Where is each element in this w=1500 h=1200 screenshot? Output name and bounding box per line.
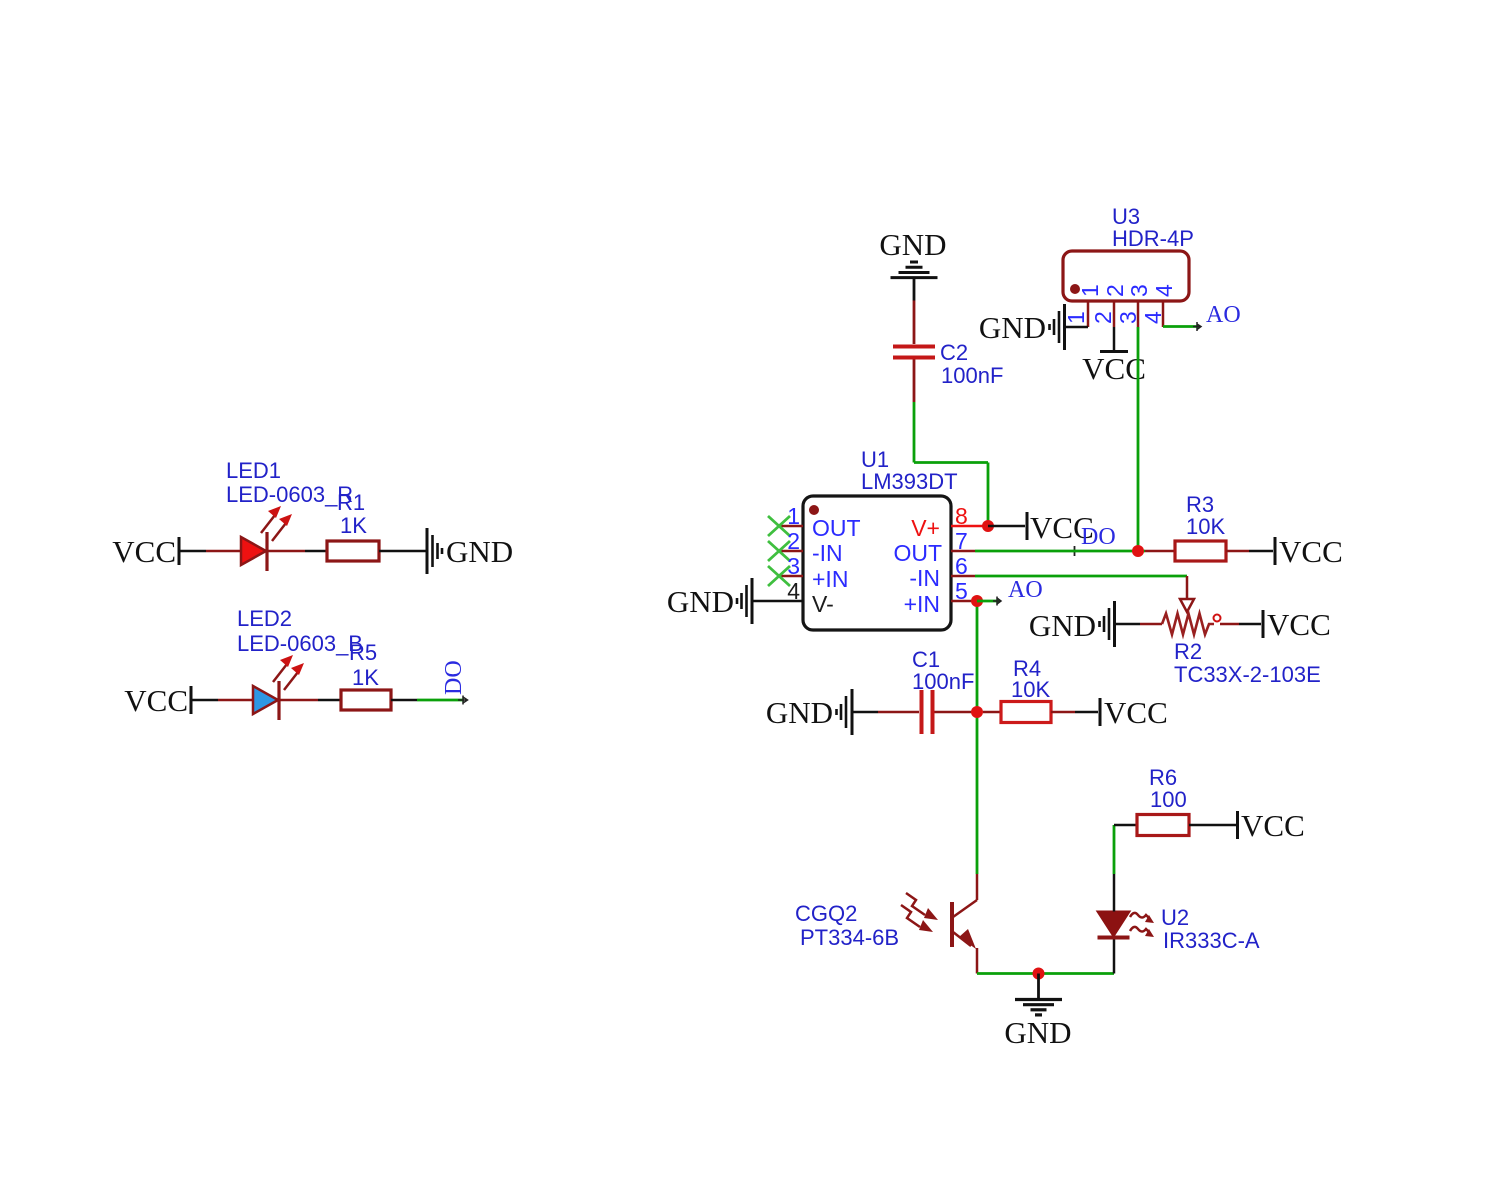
svg-text:-IN: -IN (812, 540, 843, 566)
svg-text:GND: GND (446, 534, 513, 569)
LED U2 (1098, 912, 1130, 938)
svg-text:LED-0603_R: LED-0603_R (226, 482, 353, 507)
wire pin5 to AO port (977, 600, 999, 603)
svg-text:U2: U2 (1161, 905, 1189, 930)
svg-text:GND: GND (1004, 1015, 1071, 1050)
svg-text:HDR-4P: HDR-4P (1112, 226, 1194, 251)
svg-text:VCC: VCC (1241, 808, 1305, 843)
U1 pin1 orientation dot (809, 505, 819, 515)
LED LED2 (253, 655, 304, 720)
resistor R5 (341, 690, 391, 710)
wire GND to U1 pin4 (752, 600, 803, 603)
svg-text:2: 2 (1102, 284, 1128, 297)
svg-text:IR333C-A: IR333C-A (1163, 928, 1260, 953)
U3 pin1 dot (1070, 284, 1080, 294)
no-connect X pin1 (768, 516, 790, 536)
svg-text:8: 8 (955, 503, 968, 529)
svg-text:3: 3 (1115, 311, 1141, 324)
connector U3 body (1063, 251, 1189, 301)
power flag VCC (R3) (1275, 534, 1343, 569)
svg-text:7: 7 (955, 528, 968, 554)
capacitor C2 (893, 347, 935, 358)
svg-text:+IN: +IN (904, 591, 940, 617)
ground GND (R2) (1029, 601, 1115, 647)
ground GND (C1) (766, 689, 852, 735)
power flag VCC (R2) (1263, 607, 1331, 642)
svg-text:1: 1 (1063, 311, 1089, 324)
node junction bottom GND (1033, 968, 1045, 980)
svg-text:2: 2 (787, 528, 800, 554)
node junction pin5 (971, 595, 983, 607)
ground GND (above C2) (879, 227, 946, 278)
svg-text:OUT: OUT (893, 540, 942, 566)
svg-text:VCC: VCC (124, 683, 188, 718)
wire GND to R2 (1115, 623, 1163, 626)
svg-text:V-: V- (812, 591, 834, 617)
U2 emitted light squiggles (1130, 913, 1154, 937)
wire U1 pin7 to R3 (975, 550, 1145, 553)
svg-text:TC33X-2-103E: TC33X-2-103E (1174, 662, 1321, 687)
svg-text:DO: DO (441, 660, 467, 695)
wire U2 anode up to R6 (1114, 825, 1137, 912)
svg-text:C2: C2 (940, 340, 968, 365)
wire U1 pin6 to R2 wiper (975, 576, 1187, 600)
svg-text:4: 4 (1140, 311, 1166, 324)
wire R6 to VCC (1189, 824, 1236, 827)
svg-text:VCC: VCC (1267, 607, 1331, 642)
power flag VCC (U1 pin8) (1027, 510, 1094, 545)
U1 left pin names (812, 515, 861, 617)
U3 pin 1 stub (1087, 301, 1090, 327)
svg-text:LED1: LED1 (226, 458, 281, 483)
LED LED1 (241, 506, 292, 571)
svg-text:1: 1 (1077, 284, 1103, 297)
resistor R6 (1137, 815, 1189, 836)
wire C1 to node (935, 711, 973, 714)
net port arrow DO (458, 696, 468, 705)
power flag VCC (R6) (1238, 808, 1305, 843)
svg-text:DO: DO (1081, 524, 1116, 550)
U1 pin 5 stub (951, 600, 972, 603)
svg-text:10K: 10K (1011, 677, 1050, 702)
transistor CGQ2 (952, 874, 977, 974)
op-amp U1 body (803, 496, 951, 630)
U3 inside pin numbers (rotated) (1077, 284, 1177, 297)
CGQ2 incoming light arrows (901, 893, 938, 932)
svg-text:6: 6 (955, 553, 968, 579)
wire node to R4 (983, 711, 1001, 714)
resistor R4 (1001, 702, 1051, 723)
svg-text:100nF: 100nF (912, 669, 974, 694)
U1 pin 6 stub (951, 575, 975, 578)
svg-text:LED-0603_B: LED-0603_B (237, 631, 363, 656)
resistor R3 (1175, 541, 1226, 561)
wire pin8 to VCC (988, 525, 1025, 528)
svg-text:LED2: LED2 (237, 606, 292, 631)
wire R5 to DO port (391, 699, 464, 702)
ground GND (U1 pin4) (667, 578, 752, 624)
power flag VCC (LED1) (112, 534, 179, 569)
svg-text:5: 5 (955, 578, 968, 604)
U1 pin 8 stub (951, 525, 988, 528)
svg-text:3: 3 (1126, 284, 1152, 297)
node junction C1/R4 (971, 706, 983, 718)
wire LED1 to R1 (267, 550, 327, 553)
svg-text:-IN: -IN (909, 565, 940, 591)
wire U2 cathode to bottom net (1113, 937, 1116, 974)
svg-text:LM393DT: LM393DT (861, 469, 958, 494)
power flag VCC (U3 pin2, down) (1082, 351, 1146, 386)
U3 pin 4 stub (1162, 301, 1165, 327)
ground GND (U3 pin1) (979, 304, 1065, 350)
wire R3 to VCC (1226, 550, 1273, 553)
svg-text:GND: GND (979, 310, 1046, 345)
no-connect X pin2 (768, 541, 790, 561)
wire VCC to LED2 (191, 699, 253, 702)
node junction DO (1132, 545, 1144, 557)
wire node down to CGQ2 collector (976, 712, 979, 874)
svg-text:VCC: VCC (1082, 351, 1146, 386)
wire U3 pin4 to AO port (1163, 325, 1199, 328)
svg-text:V+: V+ (911, 515, 940, 541)
svg-text:4: 4 (1151, 284, 1177, 297)
U3 pin 3 stub (1137, 301, 1140, 327)
no-connect X pin3 (768, 566, 790, 586)
svg-text:GND: GND (1029, 608, 1096, 643)
node junction pin8 (982, 520, 994, 532)
svg-text:R1: R1 (337, 490, 365, 515)
wire R2 to VCC (1220, 623, 1261, 626)
svg-text:GND: GND (766, 695, 833, 730)
power flag VCC (R4) (1100, 695, 1168, 730)
wire R1 to GND (379, 550, 427, 553)
net port marker AO (993, 597, 1001, 606)
svg-text:+IN: +IN (812, 566, 848, 592)
svg-text:AO: AO (1008, 577, 1043, 603)
svg-text:CGQ2: CGQ2 (795, 901, 857, 926)
resistor R1 (327, 541, 379, 561)
ground GND (LED1) (427, 528, 513, 574)
svg-text:AO: AO (1206, 302, 1241, 328)
wire C2 to U1 pin8 (914, 360, 988, 527)
svg-text:VCC: VCC (1279, 534, 1343, 569)
U1 pin 1 stub (779, 525, 803, 528)
U1 pin 2 stub (779, 550, 803, 553)
wire U3 pin3 down to DO net (1137, 327, 1140, 551)
wire U3 pin2 to VCC (1113, 327, 1116, 351)
net port marker DO (1070, 546, 1079, 556)
svg-text:GND: GND (667, 584, 734, 619)
svg-text:VCC: VCC (112, 534, 176, 569)
svg-text:R5: R5 (349, 640, 377, 665)
svg-text:3: 3 (787, 553, 800, 579)
svg-text:1K: 1K (352, 665, 379, 690)
R2 wiper arrow (1180, 599, 1194, 612)
wire LED2 to R5 (279, 699, 341, 702)
power flag VCC (LED2) (124, 683, 191, 718)
capacitor C1 (922, 690, 933, 734)
wire VCC to LED1 (179, 550, 241, 553)
net port arrow AO (U3) (1193, 322, 1201, 331)
wire emitter to U2 bottom (977, 972, 1114, 975)
svg-text:PT334-6B: PT334-6B (800, 925, 899, 950)
svg-text:1: 1 (787, 503, 800, 529)
wire GND to C1 (852, 711, 919, 714)
svg-text:R2: R2 (1174, 639, 1202, 664)
U1 pin 3 stub (779, 575, 803, 578)
U3 pin 2 stub (1113, 301, 1116, 327)
wire pin5 node down to C1 node (976, 601, 979, 712)
U1 pin 7 stub (951, 550, 975, 553)
svg-text:100nF: 100nF (941, 363, 1003, 388)
svg-text:10K: 10K (1186, 514, 1225, 539)
svg-text:OUT: OUT (812, 515, 861, 541)
svg-text:100: 100 (1150, 787, 1187, 812)
svg-text:2: 2 (1090, 311, 1116, 324)
svg-text:GND: GND (879, 227, 946, 262)
U1 right pin names (893, 515, 942, 617)
R2 wiper terminal circle (1214, 615, 1221, 622)
wire junction to R3 (1145, 550, 1176, 553)
wire GND to C2 (913, 278, 916, 344)
svg-text:1K: 1K (340, 513, 367, 538)
wire R4 to VCC (1051, 711, 1098, 714)
ground GND (bottom) (1004, 974, 1071, 1051)
wire U3 pin1 to GND (1065, 326, 1088, 329)
potentiometer R2 zigzag (1162, 614, 1214, 635)
svg-text:VCC: VCC (1104, 695, 1168, 730)
